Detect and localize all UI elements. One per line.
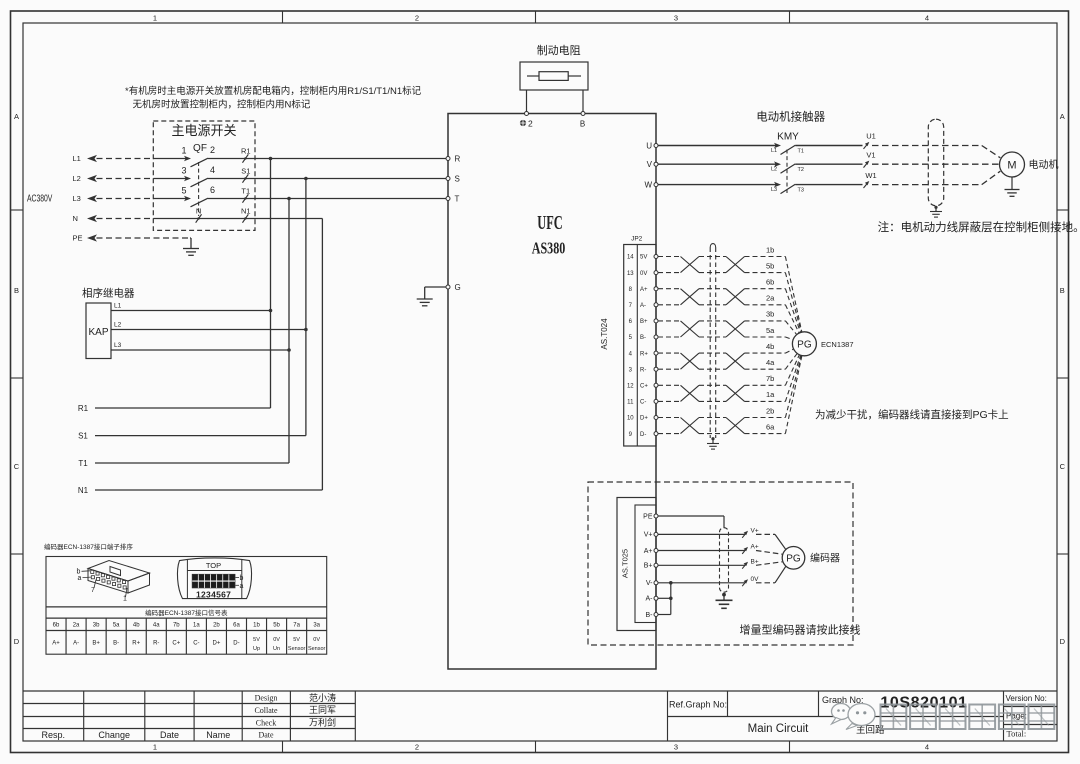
svg-text:KAP: KAP: [88, 327, 108, 338]
wire T1 stub row: [78, 459, 289, 468]
svg-text:4: 4: [925, 13, 929, 22]
contactor KMY linkage (dashed): [786, 150, 788, 194]
svg-text:1: 1: [123, 596, 127, 603]
switch QF pole 5-6 on L3: [153, 185, 255, 207]
switch QF neutral path N-N1: [153, 206, 255, 222]
wire twisted pair A+/A-: [658, 289, 785, 305]
svg-text:注：电机动力线屏蔽层在控制柜侧接地。: 注：电机动力线屏蔽层在控制柜侧接地。: [878, 220, 1080, 234]
pin 13 (0V) of JP2: [627, 271, 658, 277]
svg-text:2b: 2b: [213, 623, 220, 629]
svg-text:Collate: Collate: [254, 706, 278, 715]
svg-text:*有机房时主电源开关放置机房配电箱内，控制柜内用R1/S1/: *有机房时主电源开关放置机房配电箱内，控制柜内用R1/S1/T1/N1标记: [125, 85, 422, 97]
junction V-/A- link: [669, 581, 673, 585]
svg-text:Up: Up: [253, 646, 260, 652]
wire W1 to motor (dashed): [872, 171, 1000, 184]
pin 8 (A+) of JP2: [629, 287, 658, 293]
annotation note about main power switch location: [125, 85, 422, 111]
wire label 4b: [766, 342, 774, 351]
table signal names: [52, 637, 325, 652]
wire twisted pair R+/R-: [658, 353, 785, 369]
switch QF pole 3-4 on L2: [153, 165, 255, 187]
svg-text:无机房时放置控制柜内，控制柜内用N标记: 无机房时放置控制柜内，控制柜内用N标记: [133, 99, 311, 111]
contactor KMY pole L1-T1 on phase U: [658, 143, 863, 155]
svg-text:PG: PG: [786, 553, 801, 564]
wire label 7b: [766, 374, 774, 383]
svg-text:T3: T3: [798, 187, 804, 193]
contactor KMY pole L3-T3 on phase W: [658, 182, 863, 194]
wire KAP L3: [111, 342, 289, 350]
wire vertical tap L1 to R1 row: [270, 159, 272, 409]
wire PE to shield: [658, 516, 724, 528]
junction KAP L3 / tap: [287, 348, 291, 352]
svg-text:L3: L3: [114, 342, 122, 349]
svg-text:Ref.Graph No:: Ref.Graph No:: [669, 699, 727, 709]
svg-text:2b: 2b: [766, 406, 774, 415]
watermark logo bubbles: [832, 704, 876, 730]
wire label 4a: [766, 358, 775, 367]
svg-text:PE: PE: [643, 513, 653, 520]
svg-text:b: b: [240, 575, 244, 582]
svg-text:L2: L2: [114, 322, 122, 329]
svg-text:C+: C+: [640, 384, 648, 390]
title block grid: [23, 691, 1057, 741]
encoder PG circle (ECN1387): [792, 332, 816, 356]
terminal mark S1: [241, 167, 250, 183]
svg-text:T1: T1: [241, 187, 250, 196]
wire label 2b: [766, 406, 774, 415]
svg-text:L3: L3: [771, 187, 777, 193]
svg-text:1: 1: [153, 743, 157, 752]
wire label 1b: [766, 245, 774, 254]
svg-text:11: 11: [627, 400, 634, 406]
svg-text:5a: 5a: [113, 623, 120, 629]
title block Ref.Graph No: [669, 699, 727, 709]
wire V- (0V): [658, 582, 745, 584]
svg-text:W: W: [644, 180, 652, 189]
svg-text:AS380: AS380: [532, 240, 566, 258]
svg-text:7: 7: [91, 587, 95, 594]
table column dividers: [46, 618, 327, 654]
svg-text:制动电阻: 制动电阻: [537, 44, 581, 57]
table caption row: [46, 607, 327, 618]
svg-text:V+: V+: [644, 532, 653, 539]
svg-text:范小涛: 范小涛: [309, 692, 336, 703]
wire twisted pair D+/D-: [658, 418, 785, 434]
svg-text:主电源开关: 主电源开关: [171, 123, 236, 138]
svg-text:4a: 4a: [766, 358, 775, 367]
svg-text:L1: L1: [771, 148, 777, 154]
connector JP2 box (AS.T024): [624, 245, 656, 447]
svg-text:R+: R+: [132, 640, 140, 646]
svg-text:3a: 3a: [313, 623, 320, 629]
svg-text:N: N: [73, 214, 78, 223]
svg-text:PE: PE: [73, 234, 83, 243]
junction L1 tap: [269, 157, 273, 161]
ground at encoder wiring shield: [716, 593, 733, 609]
svg-text:R: R: [455, 154, 461, 163]
wire label 1a: [766, 390, 775, 399]
svg-text:0V: 0V: [273, 637, 280, 643]
svg-text:Date: Date: [160, 730, 179, 740]
heading 编码器ECN-1387接口端子排序: [44, 542, 133, 551]
note about connecting encoder lines to PG card: [815, 408, 1009, 421]
shield of motor cable (dashed capsule): [928, 119, 943, 206]
svg-text:V1: V1: [866, 150, 875, 159]
svg-text:JP2: JP2: [631, 236, 643, 243]
svg-text:B-: B-: [640, 335, 646, 341]
svg-text:B+: B+: [751, 559, 759, 566]
wire twisted pair C+/C-: [658, 385, 785, 401]
terminal V1 slash-arrow: [864, 150, 876, 167]
svg-text:A: A: [14, 112, 19, 121]
svg-text:0V: 0V: [313, 637, 320, 643]
svg-text:5b: 5b: [273, 623, 280, 629]
svg-text:Version No:: Version No:: [1006, 694, 1047, 703]
wire A- link: [658, 597, 671, 599]
terminal mark T1: [241, 187, 250, 203]
svg-text:相序继电器: 相序继电器: [82, 287, 135, 300]
svg-text:R+: R+: [640, 351, 648, 357]
inverter UFC AS380 enclosure: [448, 114, 656, 670]
pin R of UFC: [446, 154, 461, 163]
svg-text:B+: B+: [92, 640, 100, 646]
table header pin ids: [53, 623, 321, 629]
net AC380V supply label: [27, 192, 53, 204]
svg-text:L1: L1: [114, 303, 122, 310]
svg-text:编码器ECN-1387接口信号表: 编码器ECN-1387接口信号表: [145, 608, 228, 617]
watermark text 襄阳电梯安全: [881, 705, 1055, 730]
ground at motor cable shield: [930, 206, 942, 217]
svg-text:C: C: [14, 462, 20, 471]
svg-text:L1: L1: [73, 154, 81, 163]
wire S1 to UFC S: [255, 178, 446, 180]
svg-text:a: a: [240, 583, 244, 590]
svg-text:A+: A+: [644, 548, 653, 555]
wires fan to encoder PG (dashed): [756, 534, 786, 582]
svg-text:2: 2: [528, 118, 533, 128]
svg-text:C+: C+: [172, 640, 180, 646]
shield of encoder wiring (dashed capsule): [720, 528, 729, 593]
svg-text:A+: A+: [751, 544, 759, 551]
resistor brake-resistor box: [520, 62, 588, 90]
ground at motor: [1005, 177, 1020, 196]
svg-text:Sensor: Sensor: [308, 646, 326, 652]
svg-text:PG: PG: [797, 339, 812, 350]
svg-text:Main Circuit: Main Circuit: [748, 723, 810, 735]
pin 4 (R+) of JP2: [629, 351, 658, 357]
wire label 2a: [766, 294, 775, 303]
wire R1 to UFC R: [255, 158, 446, 160]
pin V of UFC: [647, 160, 658, 169]
wire S1 stub row: [78, 431, 306, 440]
wires fan to PG card (dashed): [785, 257, 801, 434]
junction A-/B- link: [669, 597, 673, 601]
svg-text:S: S: [455, 174, 460, 183]
wire label 3b: [766, 310, 774, 319]
wire +2 to brake resistor: [526, 90, 528, 112]
pin 9 (D-) of JP2: [629, 432, 658, 438]
svg-text:C-: C-: [640, 400, 646, 406]
svg-text:3: 3: [181, 166, 186, 176]
junction L3 tap: [287, 197, 291, 201]
svg-text:B-: B-: [113, 640, 119, 646]
svg-text:王同军: 王同军: [309, 705, 336, 715]
label ECN1387: [821, 340, 854, 349]
svg-text:D: D: [1060, 637, 1066, 646]
svg-text:4b: 4b: [766, 342, 774, 351]
title block sign-off labels: [254, 694, 278, 740]
svg-text:编码器: 编码器: [810, 552, 840, 565]
svg-text:U1: U1: [866, 132, 876, 141]
shield of encoder cable (dashed): [710, 244, 716, 438]
svg-text:Check: Check: [256, 718, 276, 727]
pin +2 of UFC (brake): [520, 112, 533, 129]
wire B+: [658, 564, 745, 566]
svg-text:D: D: [14, 637, 20, 646]
wire KAP L1: [111, 303, 271, 311]
svg-text:3: 3: [674, 13, 678, 22]
svg-text:3: 3: [629, 367, 633, 373]
pin A- of AS.T025: [646, 596, 659, 603]
pin 3 (R-) of JP2: [629, 367, 658, 373]
incremental encoder dashed enclosure: [588, 482, 853, 645]
pin W of UFC: [644, 180, 658, 189]
svg-text:5V: 5V: [253, 637, 260, 643]
svg-text:D-: D-: [640, 432, 646, 438]
svg-text:7b: 7b: [766, 374, 774, 383]
svg-text:1b: 1b: [766, 245, 774, 254]
svg-text:2: 2: [210, 145, 215, 155]
label 制动电阻 (brake resistor): [537, 44, 581, 57]
wire V1 to motor (dashed): [872, 163, 999, 165]
svg-text:A-: A-: [646, 596, 654, 603]
svg-text:4: 4: [210, 165, 215, 175]
svg-text:Name: Name: [206, 730, 230, 740]
svg-text:Un: Un: [273, 646, 280, 652]
contactor KMY reference designator: [777, 132, 799, 143]
title 主回路 (Chinese): [856, 724, 885, 736]
pin B- of AS.T025: [646, 612, 659, 619]
svg-text:万利剑: 万利剑: [309, 717, 336, 728]
svg-text:S1: S1: [78, 431, 88, 440]
switch QF linkage (dashed): [198, 162, 200, 216]
svg-text:6b: 6b: [53, 623, 60, 629]
svg-text:4b: 4b: [133, 623, 140, 629]
svg-text:R1: R1: [241, 147, 251, 156]
svg-text:2a: 2a: [73, 623, 80, 629]
note about motor cable shield grounding: [878, 220, 1080, 234]
svg-text:B-: B-: [646, 612, 654, 619]
wire L2 incoming (dashed) with arrow: [73, 174, 154, 183]
wire V+: [658, 533, 745, 535]
svg-text:L2: L2: [771, 167, 777, 173]
connector AS.T025 inner box: [635, 505, 656, 623]
label AS380: [532, 240, 566, 258]
svg-text:G: G: [455, 283, 461, 292]
pictorial encoder socket front view (TOP): [177, 558, 251, 599]
svg-text:U: U: [646, 141, 652, 150]
svg-text:3b: 3b: [766, 310, 774, 319]
title block left labels: [42, 730, 231, 740]
label AS.T024 (rotated): [600, 318, 609, 350]
svg-text:0V: 0V: [751, 576, 760, 583]
svg-text:V+: V+: [751, 528, 759, 535]
label UFC: [537, 211, 562, 234]
svg-text:1: 1: [181, 146, 186, 156]
pin A+ of AS.T025: [644, 548, 658, 555]
svg-text:电动机接触器: 电动机接触器: [756, 110, 825, 124]
main power switch QF dashed enclosure: [153, 121, 255, 230]
svg-text:UFC: UFC: [537, 211, 562, 234]
svg-text:Resp.: Resp.: [42, 730, 66, 740]
terminal mark R1: [241, 147, 251, 163]
junction L2 tap: [304, 177, 308, 181]
svg-text:V-: V-: [646, 580, 653, 587]
svg-text:Sensor: Sensor: [288, 646, 306, 652]
pin 14 (5V) of JP2: [627, 255, 658, 261]
label 编码器 (encoder): [810, 552, 840, 565]
svg-text:1a: 1a: [193, 623, 200, 629]
terminal U1 slash-arrow: [864, 132, 876, 149]
svg-text:B: B: [14, 286, 19, 295]
svg-text:S1: S1: [241, 167, 250, 176]
encoder interface table outer box: [46, 557, 327, 655]
label 电动机接触器 (motor contactor): [756, 110, 825, 124]
pin B+ of AS.T025: [644, 563, 658, 570]
wire R1 stub row: [78, 404, 271, 413]
svg-text:ECN1387: ECN1387: [821, 340, 854, 349]
svg-text:为减少干扰，编码器线请直接接到PG卡上: 为减少干扰，编码器线请直接接到PG卡上: [815, 408, 1009, 421]
svg-text:4: 4: [629, 351, 633, 357]
pin G of UFC: [446, 283, 461, 292]
junction KAP L2 / tap: [304, 328, 308, 332]
pictorial 3D encoder plug: [77, 561, 150, 603]
wire twisted pair B+/B-: [658, 321, 785, 337]
svg-text:A+: A+: [52, 640, 60, 646]
svg-text:电动机: 电动机: [1029, 158, 1059, 171]
svg-text:4: 4: [925, 743, 929, 752]
svg-text:5a: 5a: [766, 326, 775, 335]
encoder PG circle: [782, 547, 805, 570]
svg-text:QF: QF: [193, 143, 207, 154]
wire U1 to motor (dashed): [872, 146, 1000, 158]
relay KAP box: [86, 303, 111, 359]
svg-text:6a: 6a: [233, 623, 240, 629]
wire N1 tap corner: [255, 219, 322, 491]
svg-text:2a: 2a: [766, 294, 775, 303]
svg-text:5V: 5V: [640, 255, 647, 261]
svg-text:T2: T2: [798, 167, 804, 173]
svg-text:B+: B+: [640, 319, 648, 325]
wire L1 incoming (dashed) with arrow: [73, 154, 154, 163]
svg-text:T: T: [455, 194, 460, 203]
switch QF reference designator: [193, 143, 207, 154]
wire label 5b: [766, 261, 774, 270]
svg-text:AS.T025: AS.T025: [621, 549, 630, 578]
wire T1 to UFC T: [255, 198, 446, 200]
svg-text:13: 13: [627, 271, 634, 277]
svg-text:4a: 4a: [153, 623, 160, 629]
pin U of UFC: [646, 141, 658, 150]
svg-text:A-: A-: [640, 303, 646, 309]
svg-text:3b: 3b: [93, 623, 100, 629]
svg-text:2: 2: [415, 13, 419, 22]
terminal mark N1: [241, 207, 251, 223]
svg-text:5b: 5b: [766, 261, 774, 270]
pin T of UFC: [446, 194, 460, 203]
wire N1 stub row: [78, 486, 323, 495]
wire vertical tap L3 to T1 row: [288, 199, 290, 464]
svg-text:6: 6: [210, 185, 215, 195]
wire N incoming (dashed) with arrow: [73, 214, 154, 223]
switch QF pole 1-2 on L1: [153, 145, 255, 167]
pin S of UFC: [446, 174, 460, 183]
svg-text:14: 14: [627, 255, 634, 261]
svg-text:1: 1: [153, 13, 157, 22]
svg-text:1a: 1a: [766, 390, 775, 399]
svg-text:1b: 1b: [253, 623, 260, 629]
pin 10 (D+) of JP2: [627, 416, 658, 422]
terminal B+ slash-arrow (encoder): [742, 559, 759, 569]
ground at encoder cable shield: [707, 437, 719, 449]
contactor KMY pole L2-T2 on phase V: [658, 161, 863, 173]
svg-text:W1: W1: [865, 171, 876, 180]
svg-text:6a: 6a: [766, 422, 775, 431]
svg-text:9: 9: [629, 432, 633, 438]
junction KAP L1 / tap: [269, 309, 273, 313]
ground PE (below switch box): [183, 238, 199, 255]
wire label 6a: [766, 422, 775, 431]
svg-text:6: 6: [629, 319, 633, 325]
label AS.T025 (rotated): [621, 549, 630, 578]
svg-text:5: 5: [181, 186, 186, 196]
svg-text:5: 5: [629, 335, 633, 341]
svg-text:T1: T1: [78, 459, 88, 468]
svg-text:T1: T1: [798, 148, 804, 154]
title block version fields: [1006, 694, 1047, 739]
motor M circle: [1000, 152, 1025, 177]
terminal V+ slash-arrow (encoder): [742, 528, 759, 538]
wire label 5a: [766, 326, 775, 335]
svg-text:B: B: [580, 119, 585, 128]
svg-text:2: 2: [415, 743, 419, 752]
wire B to brake resistor: [582, 90, 584, 112]
pin 5 (B-) of JP2: [629, 335, 658, 341]
svg-text:D-: D-: [233, 640, 239, 646]
svg-text:N: N: [196, 206, 201, 215]
svg-text:C: C: [1060, 462, 1066, 471]
svg-text:增量型编码器请按此接线: 增量型编码器请按此接线: [740, 623, 861, 637]
label 相序继电器 (phase sequence relay): [82, 287, 135, 300]
svg-text:Design: Design: [255, 694, 278, 703]
terminal W1 slash-arrow: [864, 171, 877, 188]
svg-text:Change: Change: [98, 730, 130, 740]
svg-text:7a: 7a: [293, 623, 300, 629]
svg-text:C-: C-: [193, 640, 199, 646]
svg-text:AC380V: AC380V: [27, 192, 53, 204]
svg-text:TOP: TOP: [206, 561, 221, 570]
wire PE incoming (dashed) with arrow: [73, 234, 191, 243]
svg-text:8: 8: [629, 287, 633, 293]
svg-text:编码器ECN-1387接口端子排序: 编码器ECN-1387接口端子排序: [44, 542, 133, 551]
pin B of UFC (brake): [580, 112, 585, 129]
svg-text:L3: L3: [73, 194, 81, 203]
svg-text:5V: 5V: [293, 637, 300, 643]
connector AS.T025 outer box: [617, 498, 656, 631]
svg-text:A: A: [1060, 112, 1065, 121]
wire KAP L2: [111, 322, 306, 330]
wire label 6b: [766, 278, 774, 287]
